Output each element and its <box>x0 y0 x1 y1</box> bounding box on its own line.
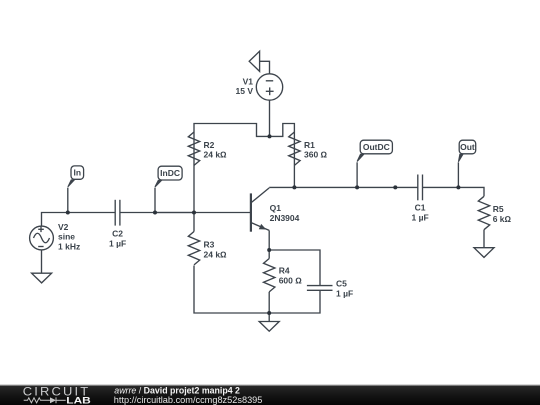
junction node collector <box>292 185 296 189</box>
flag InDC <box>155 166 183 212</box>
wire bottom rail <box>194 266 320 314</box>
junction node emitter <box>267 248 271 252</box>
svg-text:Q1: Q1 <box>270 203 282 213</box>
junction node base <box>192 211 196 215</box>
svg-text:V1: V1 <box>243 76 254 86</box>
wire C1 to R5 <box>423 187 485 196</box>
svg-text:24 kΩ: 24 kΩ <box>204 150 228 160</box>
svg-text:R1: R1 <box>304 140 315 150</box>
junction node mid <box>393 185 397 189</box>
svg-text:C2: C2 <box>112 229 123 239</box>
power flag V1 <box>249 51 259 71</box>
ground R5 <box>474 248 494 258</box>
junction node OutDC <box>355 185 359 189</box>
ground V2 <box>32 273 52 283</box>
ground center <box>259 322 279 332</box>
wire base <box>155 212 194 214</box>
svg-text:600 Ω: 600 Ω <box>279 275 303 285</box>
svg-text:24 kΩ: 24 kΩ <box>204 249 228 259</box>
wire ground stub center <box>268 313 270 322</box>
svg-text:R5: R5 <box>493 204 504 214</box>
svg-text:6 kΩ: 6 kΩ <box>493 214 512 224</box>
svg-text:http://circuitlab.com/ccmg8z52: http://circuitlab.com/ccmg8z52s8395 <box>114 395 263 405</box>
wire collector rail <box>269 186 418 188</box>
svg-text:InDC: InDC <box>160 168 180 178</box>
resistor R5 <box>478 196 489 229</box>
wire input rail right <box>120 212 250 214</box>
junction node Out <box>456 185 460 189</box>
svg-text:15 V: 15 V <box>236 86 254 96</box>
svg-text:1 kHz: 1 kHz <box>58 242 80 252</box>
flag OutDC <box>357 140 393 187</box>
svg-text:1 µF: 1 µF <box>412 212 429 222</box>
svg-text:360 Ω: 360 Ω <box>304 150 328 160</box>
capacitor C2 <box>115 200 120 226</box>
svg-text:1 µF: 1 µF <box>336 288 353 298</box>
svg-text:C1: C1 <box>415 203 426 213</box>
resistor R2 <box>188 132 199 165</box>
junction node V1 <box>268 134 272 138</box>
source V2 <box>30 226 54 250</box>
wire input rail left <box>42 213 116 227</box>
svg-text:awrre / David projet2 manip4 2: awrre / David projet2 manip4 2 <box>114 385 240 395</box>
wire R5 to ground <box>483 230 485 248</box>
capacitor C5 <box>307 286 333 291</box>
resistor R1 <box>289 132 300 165</box>
svg-text:sine: sine <box>58 232 75 242</box>
flag Out <box>458 140 476 187</box>
resistor R3 <box>188 213 199 265</box>
svg-text:R2: R2 <box>204 140 215 150</box>
svg-text:In: In <box>74 168 82 178</box>
svg-text:V2: V2 <box>58 222 69 232</box>
junction node InDC <box>153 211 157 215</box>
source V1 <box>256 74 282 100</box>
junction node bottom <box>267 311 271 315</box>
svg-text:LAB: LAB <box>66 395 91 405</box>
junction node In <box>66 211 70 215</box>
svg-text:R3: R3 <box>204 240 215 250</box>
svg-text:R4: R4 <box>279 266 290 276</box>
wire V1 bottom <box>269 100 271 136</box>
logo squiggle <box>24 397 66 403</box>
wire V1 top <box>260 61 270 74</box>
flag In <box>67 166 83 213</box>
wire emitter rail <box>269 250 320 286</box>
svg-text:OutDC: OutDC <box>363 142 390 152</box>
svg-text:1 µF: 1 µF <box>109 239 126 249</box>
capacitor C1 <box>418 175 423 201</box>
svg-text:2N3904: 2N3904 <box>270 213 300 223</box>
wire R2 branch <box>194 124 294 213</box>
resistor R4 <box>264 250 275 313</box>
transistor Q1 <box>251 188 269 250</box>
wire V2 ground stub <box>41 250 43 273</box>
svg-text:C5: C5 <box>336 279 347 289</box>
svg-text:Out: Out <box>460 142 475 152</box>
